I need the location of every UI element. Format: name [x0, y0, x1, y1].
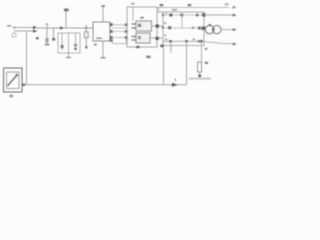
gate G2 output wire [150, 37, 163, 39]
connector arrow top input [33, 26, 37, 29]
wire row3 in box D [163, 40, 204, 42]
pin blob row2 right edge [202, 27, 206, 30]
supply lead top of U1 [102, 7, 104, 23]
terminal arrow row3 [233, 43, 237, 46]
label tick above box C [131, 3, 135, 5]
node: circled terminal marker 1 [12, 33, 16, 37]
resistor R1 vertical at x53 [53, 28, 55, 38]
output wire row2 [221, 29, 233, 31]
node label near arrows [36, 37, 39, 39]
output wire row1 [204, 14, 233, 16]
box A rectifier block [58, 33, 80, 53]
capacitor C2 inside box A [68, 33, 70, 53]
wire box D to bottom rail right [186, 41, 188, 85]
pin number marks left of box D [164, 22, 166, 36]
wire box D to bottom rail left [163, 47, 165, 85]
rail label a [160, 4, 164, 6]
label below U1 [94, 44, 97, 46]
sensor diagonal arrow [8, 76, 17, 87]
supply rail top [157, 6, 229, 8]
sensor box [4, 68, 23, 92]
routed wire below between U1 and box C [112, 39, 126, 44]
bottom rail [23, 84, 187, 86]
tick marks above row3 [165, 38, 195, 40]
label inside U1 [96, 37, 102, 39]
capacitor C1 vertical at x47 [46, 24, 48, 45]
lamp H1 second circle [213, 25, 221, 33]
label below sensor [10, 95, 13, 97]
gate G1 [136, 21, 152, 31]
supply lead +U at x66 [65, 10, 67, 28]
blob right of lamp [212, 28, 214, 31]
gate G2 [136, 33, 150, 43]
stub below box D at x171 [170, 41, 172, 53]
connector arrow on main wire [60, 26, 64, 29]
node tick on top wire [14, 26, 16, 29]
wire sensor up to input [26, 31, 28, 85]
gate G1 output wire [152, 25, 164, 27]
box D output block [163, 12, 204, 46]
wire input bottom [14, 30, 33, 32]
output wire row3 [204, 42, 233, 44]
mark on box C bottom edge [136, 46, 139, 48]
wire main horizontal [37, 27, 93, 29]
supply stub inside box C [132, 7, 134, 21]
label right of R4 [205, 62, 208, 64]
wire input top [12, 27, 33, 29]
terminal arrow row1 [233, 14, 237, 17]
junction dots on box D left edge [162, 14, 164, 16]
rail drop to box D [159, 7, 164, 12]
rail label b [188, 4, 192, 6]
sensor inner box [7, 72, 20, 89]
IC U1 block [93, 22, 110, 41]
label below box C [146, 56, 150, 59]
lamp polarity mark [209, 24, 212, 26]
connector arrow on bottom rail [172, 83, 178, 87]
pin blobs on box C left edge [125, 24, 128, 39]
wire row2 in box D [163, 27, 204, 29]
lamp H1 [204, 29, 206, 31]
wire row1 in box D [163, 14, 204, 16]
ground stub below box A [68, 53, 70, 57]
resistor R4 below box D [201, 41, 203, 62]
pin blob row1 right edge [202, 13, 206, 16]
tick above bottom rail [174, 79, 176, 81]
terminal arrow rail [233, 6, 237, 9]
label Ue right of box D [205, 48, 208, 50]
wires U1 pins to gate box [112, 24, 127, 26]
box C logic block [127, 7, 157, 47]
junction dot at sensor output [22, 83, 25, 86]
faint label near rail end [225, 3, 229, 5]
pin dots right edge of U1 [109, 23, 113, 41]
resistor R3 hanging at x86 [85, 25, 87, 46]
ground lead bottom of U1 [102, 41, 104, 57]
terminal arrow row2 [233, 28, 237, 31]
resistor R2 inside box A [75, 33, 77, 50]
node: input label U~ [7, 25, 11, 27]
junction on main wire [85, 27, 87, 29]
diode D1 inside box A [61, 33, 63, 50]
junction dots on row3 [169, 40, 172, 43]
label above G1 [140, 17, 143, 19]
connector arrow bottom input [33, 30, 37, 33]
faint text bottom right [189, 78, 211, 80]
corner blob bottom-left of box D [160, 45, 163, 48]
label above box D [172, 9, 177, 11]
transistor line in box D [181, 13, 183, 28]
